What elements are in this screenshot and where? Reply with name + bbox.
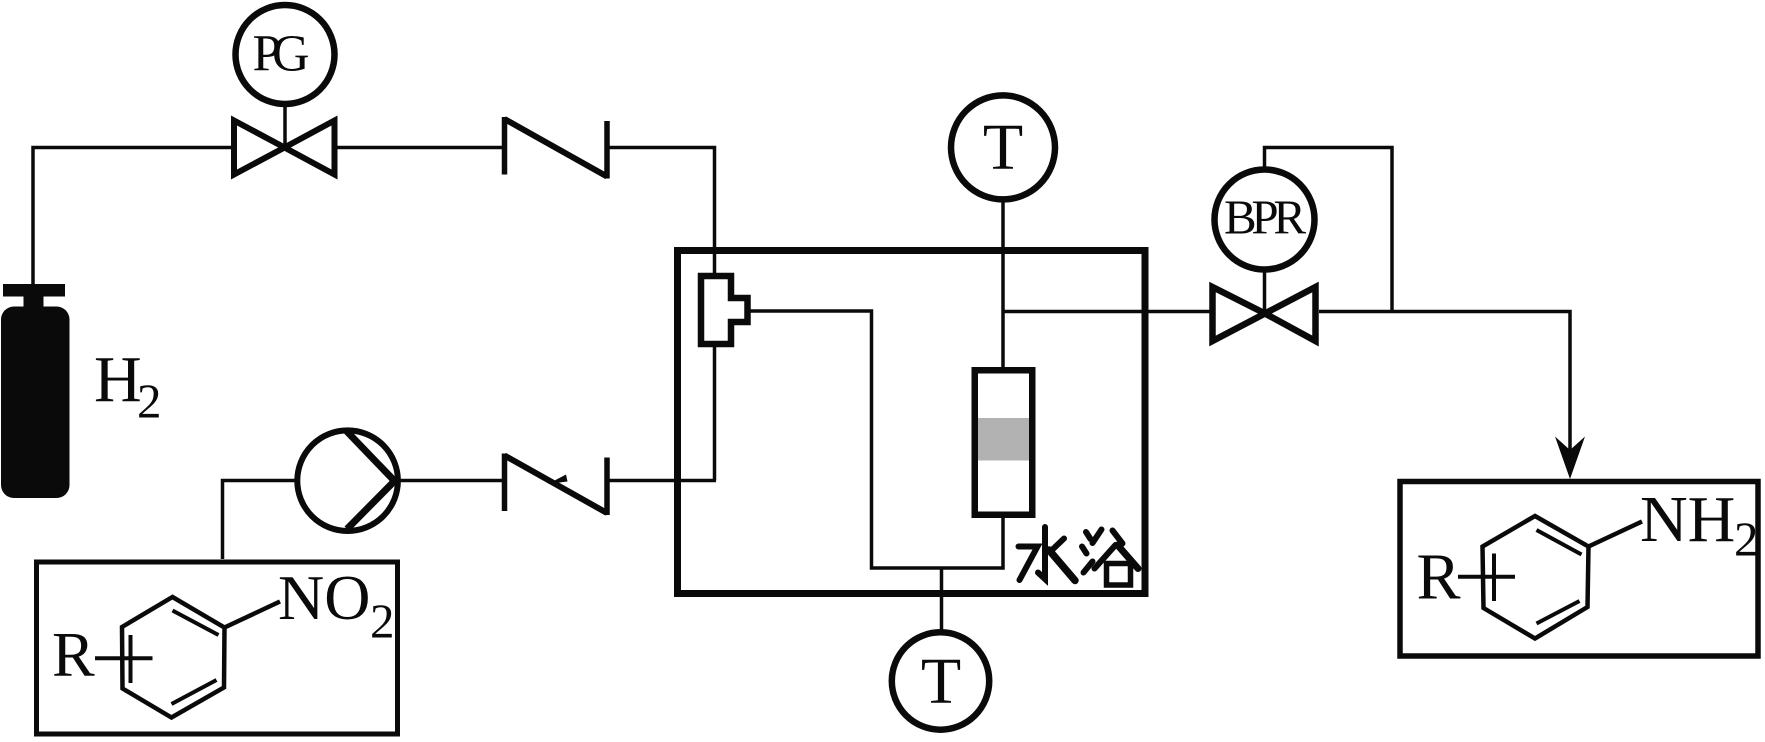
svg-text:T: T bbox=[983, 111, 1023, 184]
ring 1 NO2 bond bbox=[225, 602, 281, 628]
T-mixer fitting bbox=[701, 276, 748, 344]
check valve CV2 barb bbox=[548, 475, 568, 485]
pressure gauge PG circle bbox=[236, 5, 335, 104]
wire CV2 into bath to junction bbox=[610, 479, 717, 483]
svg-text:R: R bbox=[52, 619, 95, 690]
ring 1 inner bond top-right bbox=[173, 611, 219, 636]
wire mixer bottom to junction bbox=[713, 344, 717, 481]
svg-text:BPR: BPR bbox=[1224, 190, 1306, 245]
label 浴 (bath) bbox=[1082, 530, 1138, 586]
wire pump to check valve CV2 bbox=[401, 479, 505, 483]
check valve CV1 bbox=[505, 117, 608, 179]
H2 gas cylinder neck bbox=[24, 295, 44, 309]
ring 2 inner bond bottom-right bbox=[1537, 601, 1580, 624]
svg-text:2: 2 bbox=[137, 374, 162, 429]
svg-text:2: 2 bbox=[1734, 512, 1759, 567]
ring 2 inner bond top-right bbox=[1537, 530, 1582, 555]
thermometer T bottom circle bbox=[892, 632, 989, 729]
valve V2 (back pressure valve) bbox=[1213, 287, 1316, 341]
wire top thermometer stem bbox=[1001, 200, 1005, 368]
svg-text:H: H bbox=[94, 343, 142, 416]
pump P1 triangle chords bbox=[346, 430, 395, 529]
wire CV1 to mixer top bbox=[610, 148, 715, 277]
label 水 (water) bbox=[1019, 527, 1076, 581]
wire column junction to valve V2 bbox=[1003, 310, 1211, 314]
arrowhead into product box bbox=[1555, 437, 1585, 480]
thermometer T top circle bbox=[951, 95, 1055, 199]
H2 gas cylinder body bbox=[1, 307, 70, 499]
benzene ring 1 bbox=[122, 597, 225, 718]
pump P1 circle bbox=[297, 430, 398, 531]
wire BPR stem bbox=[1263, 271, 1267, 314]
svg-text:2: 2 bbox=[370, 594, 395, 649]
wire BPR bypass loop bbox=[1265, 148, 1393, 312]
wire valve V2 to product box bbox=[1319, 312, 1570, 469]
ring 1 inner bond left bbox=[129, 635, 133, 683]
ring 1 inner bond bottom-right bbox=[172, 680, 217, 704]
wire valve V1 to check valve CV1 bbox=[338, 146, 505, 150]
benzene ring 2 bbox=[1483, 516, 1589, 639]
water bath box bbox=[678, 251, 1146, 594]
product box (R-NH2) bbox=[1400, 482, 1758, 657]
ring 1 R bond bbox=[95, 656, 153, 660]
svg-text:R: R bbox=[1417, 541, 1461, 614]
wire bottom thermometer stem bbox=[940, 568, 944, 630]
svg-text:NH: NH bbox=[1640, 483, 1735, 556]
catalyst column gray band bbox=[975, 418, 1032, 461]
back pressure regulator BPR circle bbox=[1215, 170, 1315, 270]
ring 2 inner bond left bbox=[1492, 554, 1496, 602]
valve V1 (H2 inlet valve) bbox=[234, 121, 335, 175]
wire H2 cylinder to valve V1 bbox=[33, 148, 232, 287]
ring 2 NH2 bond bbox=[1589, 522, 1643, 547]
wire feed box to pump bbox=[223, 481, 297, 560]
catalyst column bbox=[975, 370, 1033, 515]
svg-text:NO: NO bbox=[278, 562, 370, 633]
feed reservoir box (R-NO2) bbox=[37, 562, 398, 734]
svg-text:PG: PG bbox=[253, 26, 310, 83]
check valve CV2 bbox=[505, 454, 608, 516]
H2 gas cylinder cap bbox=[3, 284, 65, 297]
ring 2 R bond bbox=[1458, 575, 1515, 579]
svg-text:T: T bbox=[921, 645, 961, 718]
wire mixer outlet to column bottom bbox=[749, 311, 1003, 568]
wire PG stem bbox=[283, 106, 287, 148]
